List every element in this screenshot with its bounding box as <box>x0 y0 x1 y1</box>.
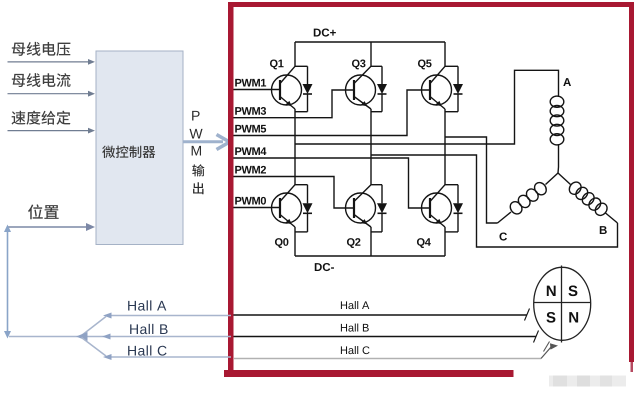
label phase B <box>600 226 607 234</box>
label PWM3 <box>235 107 266 115</box>
label S bottom-left <box>546 312 555 323</box>
wire phase B from leg2 <box>371 155 618 247</box>
wire PWM4 to Q4 base <box>234 158 431 208</box>
winding coil B <box>558 173 618 223</box>
label Hall B small <box>341 324 369 332</box>
wire speed-reference input arrow <box>8 128 96 134</box>
wire leg3 vertical <box>444 42 446 256</box>
label P W M vertical <box>189 111 202 156</box>
watermark <box>549 376 626 387</box>
red frame bottom bar <box>224 370 514 377</box>
label position 位置 <box>28 204 59 219</box>
label DC- <box>315 263 334 271</box>
transistor Q3 with freewheel diode <box>346 60 388 112</box>
label S top-right <box>568 286 577 297</box>
wire feedback vertical bus <box>4 225 11 339</box>
wire Hall A (inside) <box>234 309 530 321</box>
wire Hall C (inside, gray) <box>234 342 558 359</box>
wire leg1 vertical <box>294 42 296 256</box>
DC+ rail <box>295 41 445 43</box>
transistor Q2 with freewheel diode <box>346 185 388 248</box>
red frame right border <box>629 2 634 372</box>
microcontroller U1 box <box>96 51 183 245</box>
wire bus-current input arrow <box>8 91 96 97</box>
transistor Q4 with freewheel diode <box>417 185 463 248</box>
red frame left border <box>228 2 234 377</box>
label bus-current 母线电流 <box>12 73 71 87</box>
winding coil C <box>498 173 559 223</box>
label PWM2 <box>235 166 266 174</box>
label PWM1 <box>235 79 266 87</box>
label PWM5 <box>235 125 266 133</box>
wire phase C from leg3 <box>445 137 498 223</box>
hall sensor rotor magnet <box>534 266 591 343</box>
label Hall A small <box>341 301 369 309</box>
label Hall C <box>128 345 166 355</box>
wire Hall B (inside) <box>234 331 539 343</box>
transistor Q1 with freewheel diode <box>270 60 313 112</box>
wire PWM3 to Q3 base <box>234 90 355 118</box>
label Hall A <box>128 300 166 310</box>
label DC+ <box>314 28 336 36</box>
wire leg2 vertical <box>370 42 372 256</box>
label N bottom-right <box>569 312 578 322</box>
label phase A <box>563 78 571 86</box>
wire PWM2 to Q2 base <box>234 177 355 209</box>
transistor Q5 with freewheel diode <box>418 60 463 112</box>
wire Hall A left arrow <box>82 313 232 336</box>
label bus-voltage 母线电压 <box>12 42 71 56</box>
label Hall C small <box>341 346 370 354</box>
PWM output arrow <box>183 135 230 150</box>
label 微控制器 <box>102 146 155 158</box>
label N top-left <box>547 286 556 296</box>
wire bus-voltage input arrow <box>8 59 96 65</box>
winding coil A <box>550 94 564 173</box>
wire PWM5 to Q5 base <box>234 90 431 136</box>
transistor Q0 with freewheel diode <box>272 185 313 248</box>
wire Hall B left arrow <box>9 332 231 341</box>
label speed-reference 速度给定 <box>12 111 71 125</box>
wire position arrow into controller <box>8 223 96 231</box>
label phase C <box>499 232 507 240</box>
label PWM0 <box>235 197 266 205</box>
red frame top border <box>228 2 634 7</box>
label PWM4 <box>235 147 266 155</box>
wire PWM1 to Q1 base <box>234 89 281 91</box>
wire phase A from leg1 <box>295 70 559 144</box>
label 输出 vertical <box>192 164 204 194</box>
wire Hall C left arrow <box>82 338 232 361</box>
wire PWM0 to Q0 base <box>234 207 281 209</box>
DC- rail <box>295 255 445 257</box>
label Hall B <box>130 324 167 334</box>
